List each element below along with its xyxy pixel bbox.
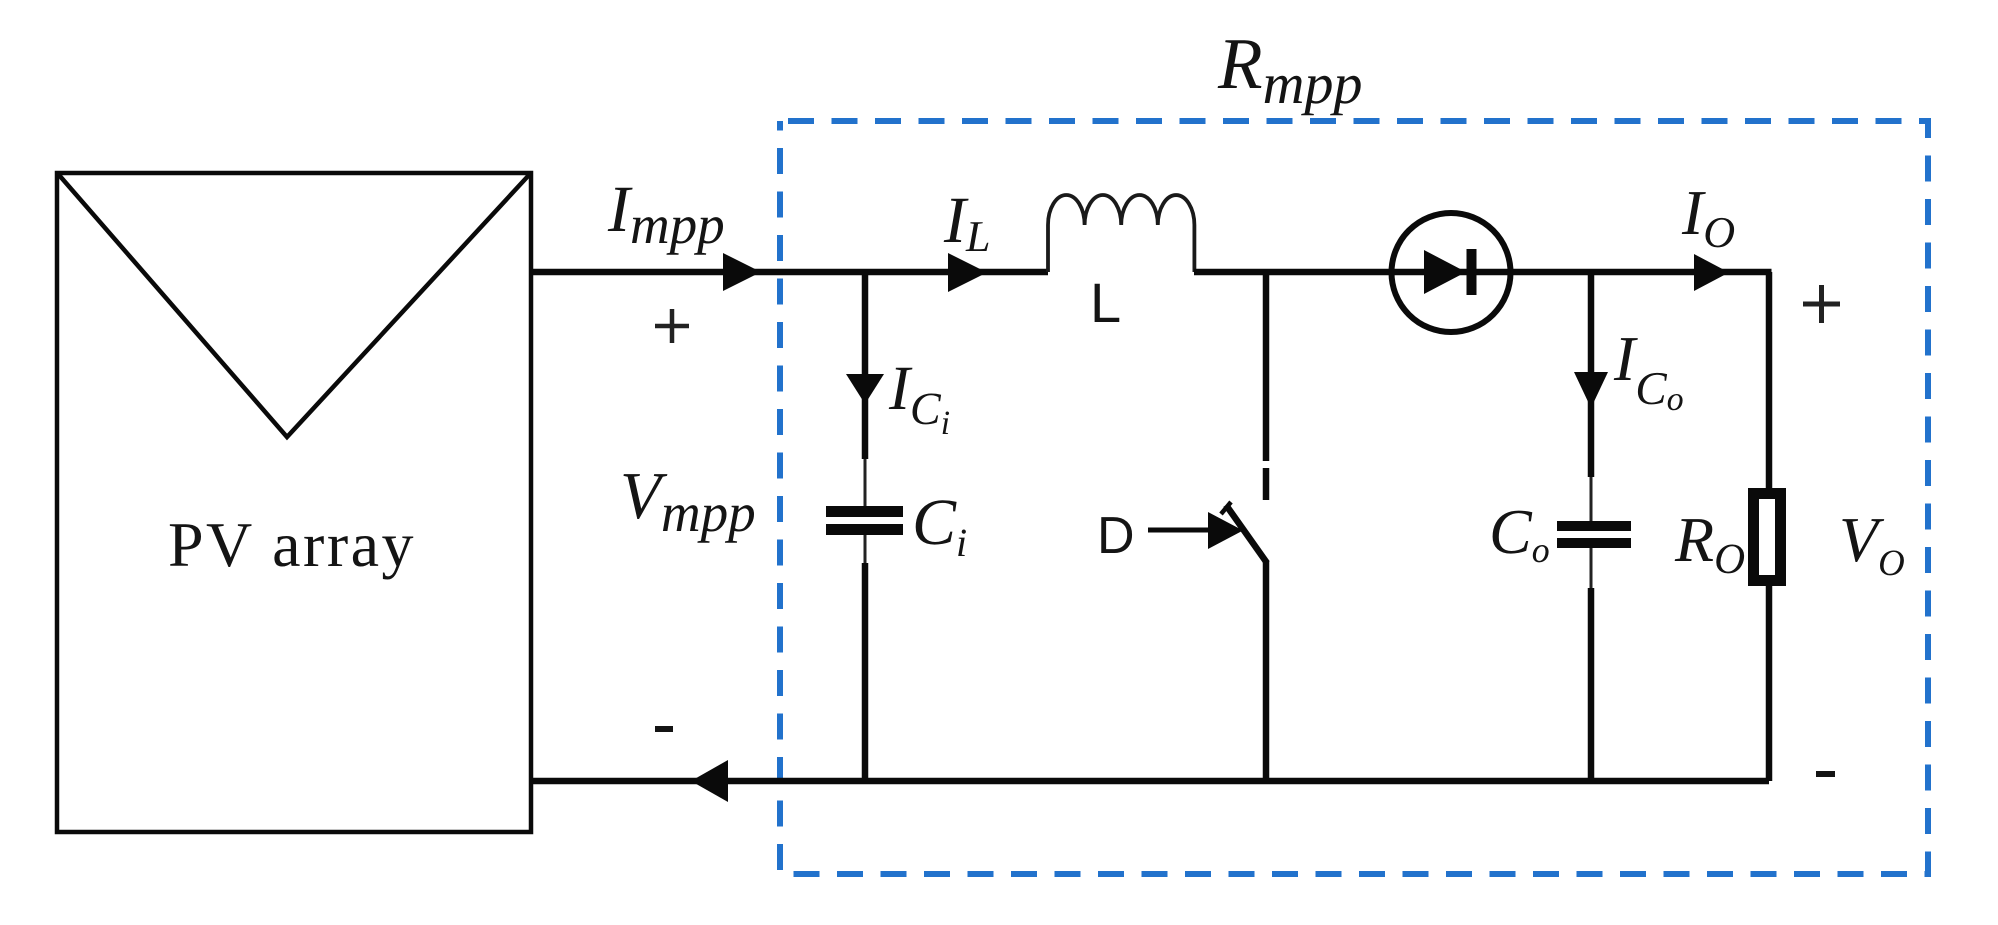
- label Rmpp: [1218, 40, 1361, 115]
- wire Ci lower: [862, 563, 869, 781]
- wire top: PV array to inductor: [531, 269, 1048, 276]
- diode cathode bar: [1467, 249, 1477, 295]
- switch D blade spur: [1221, 502, 1231, 514]
- wire output right branch upper: [1766, 272, 1773, 493]
- arrow return (left): [691, 760, 728, 802]
- wire diode to output corner: [1511, 269, 1772, 276]
- capacitor Co plates: [1557, 521, 1631, 531]
- label Co: [1493, 511, 1549, 563]
- capacitor Ci lead lower thin: [864, 535, 867, 563]
- label Io: [1682, 192, 1734, 247]
- label Ro: [1675, 519, 1744, 573]
- wire D gate: [1148, 528, 1212, 533]
- bottom return wire: [531, 778, 1769, 785]
- label Ci: [916, 500, 966, 556]
- PV array V symbol: [59, 175, 529, 437]
- label IL: [944, 199, 989, 251]
- label Vo: [1842, 519, 1904, 575]
- label ICi: [889, 368, 949, 434]
- label Impp: [608, 188, 723, 255]
- boundary Rmpp dashed box: [780, 121, 1928, 874]
- wire Co upper: [1588, 272, 1595, 477]
- wire output right branch lower: [1766, 586, 1773, 781]
- wire through diode: [1393, 269, 1511, 276]
- inductor L: [1048, 195, 1194, 272]
- switch D blade: [1226, 505, 1267, 563]
- svg-text:L: L: [1090, 271, 1121, 334]
- label - (output): [1816, 771, 1835, 777]
- arrow Io: [1694, 254, 1729, 291]
- label ICo: [1614, 338, 1683, 410]
- capacitor Ci lead upper thin: [864, 459, 867, 506]
- arrow Impp: [723, 253, 761, 291]
- arrow IL: [948, 253, 987, 292]
- svg-text:D: D: [1097, 507, 1135, 565]
- capacitor Co lead lower thin: [1590, 548, 1593, 588]
- PV array box: [57, 173, 531, 832]
- diode circle: [1392, 213, 1511, 332]
- diode triangle: [1424, 250, 1466, 294]
- switch D upper wire: [1263, 272, 1270, 461]
- arrow D gate: [1208, 512, 1243, 549]
- wire inductor to diode: [1194, 269, 1393, 276]
- label + (input): [655, 309, 689, 343]
- switch D lower wire: [1263, 561, 1270, 781]
- label + (output): [1803, 285, 1840, 323]
- switch D contact stub: [1263, 468, 1270, 500]
- arrow ICo: [1574, 372, 1608, 408]
- arrow ICi: [846, 374, 884, 404]
- capacitor Co lead upper thin: [1590, 477, 1593, 521]
- label Vmpp: [624, 474, 755, 543]
- svg-text:PV array: PV array: [168, 509, 416, 580]
- capacitor Ci plates: [826, 506, 903, 517]
- wire Co lower: [1588, 588, 1595, 781]
- wire Ci upper: [862, 272, 869, 459]
- resistor Ro: [1754, 494, 1781, 581]
- label - (input): [655, 726, 673, 732]
